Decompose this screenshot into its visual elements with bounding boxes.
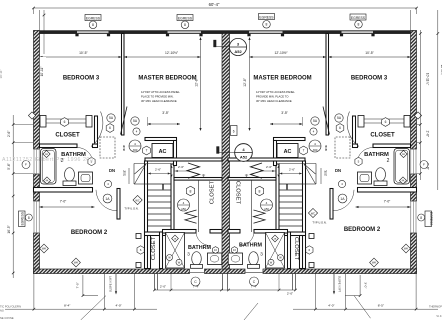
- keynote symbol 7 (right): [300, 146, 308, 155]
- svg-text:6: 6: [385, 120, 387, 124]
- walkway outline verticals right: [316, 274, 417, 310]
- svg-text:2’-0”: 2’-0”: [160, 284, 166, 288]
- stairs: treads: [148, 183, 172, 185]
- svg-text:30” MIN. HEAD CLEARANCE: 30” MIN. HEAD CLEARANCE: [141, 99, 177, 103]
- wall: center party wall (hatched): [222, 34, 230, 270]
- section marker 4/A52 overlay (redraw on top): [235, 144, 253, 162]
- svg-text:8’-5”: 8’-5”: [378, 303, 384, 307]
- wall: party wall stoop extension below bottom wall: [223, 274, 228, 291]
- leader diagonal bottom-center: [244, 303, 258, 320]
- keynote symbol 6 (left): [137, 246, 144, 254]
- keynote symbol 6 (left): [106, 124, 114, 133]
- svg-text:A52: A52: [234, 49, 242, 54]
- left outer vertical dimension chain: [7, 115, 33, 278]
- wall: right exterior (hatched, with two window openings): [411, 31, 417, 274]
- break symbol on closet wall (lower): [185, 210, 197, 223]
- right outer vertical dimension chain A: [417, 30, 430, 180]
- svg-text:BEDROOM 2: BEDROOM 2: [71, 230, 108, 236]
- svg-text:1A: 1A: [105, 197, 110, 201]
- svg-text:WA: WA: [372, 260, 376, 264]
- wall: bathroom2 bottom wall: [34, 188, 93, 193]
- right unit interior geometry (mirrored copy): [122, 34, 422, 269]
- egress box 1 with keynote circle 8: [85, 15, 101, 29]
- keynote symbol WA (right): [370, 258, 379, 267]
- keynote symbol W (left): [167, 255, 173, 261]
- svg-text:8: 8: [184, 23, 186, 27]
- svg-text:3: 3: [260, 252, 263, 257]
- keynote symbol 1A (left): [103, 194, 112, 203]
- keynote symbol 4|A50 (right): [309, 140, 321, 152]
- svg-text:CLOSET: CLOSET: [293, 237, 299, 261]
- keynote symbol 4A (right): [400, 150, 407, 157]
- dim line: overall width 60'-4" top: [32, 7, 418, 30]
- svg-text:10’-5”: 10’-5”: [79, 51, 87, 55]
- svg-text:2’-6”: 2’-6”: [426, 131, 430, 137]
- leader diagonal bottom-right: [354, 296, 371, 319]
- svg-text:A50: A50: [264, 207, 269, 211]
- slope arrow left walkway: [109, 274, 118, 295]
- fixture: toilet bathroom2: [65, 168, 75, 182]
- svg-text:EGRESS: EGRESS: [259, 15, 274, 19]
- dim line: bedroom2 7'-0" interior: [40, 206, 95, 208]
- keynote symbol F (left): [22, 161, 30, 169]
- dim line row: bottom left 8'-4 / 4'-0: [5, 303, 157, 310]
- wall: bedroom2 door stub: [117, 189, 120, 220]
- keynote diamond WC with TYP U.O.N. (right): [308, 208, 326, 224]
- closet door jamb stubs at hall closet: [136, 234, 141, 239]
- walkway outline verticals left: [34, 274, 135, 310]
- svg-text:EGRESS: EGRESS: [178, 16, 193, 20]
- svg-text:12”X30” ATTIC ACCESS PANEL: 12”X30” ATTIC ACCESS PANEL: [256, 90, 295, 94]
- wall: bottom exterior (hatched, two entry door openings): [34, 269, 417, 274]
- egress box 4 with keynote circle 8: [350, 14, 366, 28]
- keynote diamond WC with TYP U.O.N. (left): [124, 195, 142, 210]
- svg-text:WA: WA: [404, 246, 408, 250]
- right outer vertical dimension chain B: [437, 10, 442, 190]
- svg-text:TIC POLYOLEFIN: TIC POLYOLEFIN: [0, 305, 21, 309]
- stairs: up tick: [162, 184, 164, 190]
- fixture: shower stall with X: [166, 233, 185, 269]
- fixture: bathtub bedroom-level bath: [41, 149, 57, 185]
- svg-text:A50: A50: [133, 148, 138, 152]
- stair head dim arrows at x171.5: [170, 166, 172, 168]
- svg-text:30” MIN. HEAD CLEARANCE: 30” MIN. HEAD CLEARANCE: [256, 99, 292, 103]
- svg-text:EGRESS: EGRESS: [86, 16, 101, 20]
- dim: left walkway 7'-0 vertical L: [76, 275, 99, 297]
- svg-text:MASTER BEDROOM: MASTER BEDROOM: [138, 76, 196, 82]
- keynote symbol 10 (right): [232, 247, 238, 254]
- door arc: bathroom3: [196, 232, 210, 246]
- keynote symbol 4|A50 (right): [261, 199, 273, 211]
- svg-text:TYP U.O.N.: TYP U.O.N.: [124, 207, 138, 211]
- keynote symbol 5 (right): [355, 157, 362, 165]
- keynote symbol 6 (left): [61, 118, 69, 127]
- svg-text:12’-8”: 12’-8”: [243, 78, 247, 86]
- svg-text:10’-5”: 10’-5”: [365, 51, 373, 55]
- svg-text:BATHRM: BATHRM: [239, 242, 262, 248]
- svg-text:CLOSET: CLOSET: [151, 236, 157, 260]
- svg-text:5’-6”: 5’-6”: [7, 163, 11, 169]
- svg-text:BEDROOM 3: BEDROOM 3: [63, 76, 100, 82]
- appliance: AC unit box: [152, 144, 173, 158]
- svg-text:4: 4: [266, 201, 268, 205]
- svg-text:THERMOP: THERMOP: [429, 305, 442, 309]
- svg-text:A50: A50: [181, 207, 186, 211]
- dim: right walkway 3'-0 vertical L: [345, 275, 368, 297]
- svg-text:CLOSET: CLOSET: [210, 180, 216, 204]
- keynote symbol F (right): [420, 161, 428, 169]
- keynote symbol 5 (left): [88, 157, 95, 165]
- door keynote circle C left entry: [191, 277, 200, 286]
- svg-text:BATHRM: BATHRM: [364, 152, 389, 158]
- svg-text:WA: WA: [74, 260, 78, 264]
- svg-text:MASTER BEDROOM: MASTER BEDROOM: [253, 76, 311, 82]
- left unit interior geometry (walls, stairs, fixtures): [28, 34, 328, 269]
- svg-text:6: 6: [64, 120, 66, 124]
- svg-text:4: 4: [134, 142, 136, 146]
- svg-text:SLOPE ¼”/FT: SLOPE ¼”/FT: [338, 276, 342, 293]
- svg-text:A52: A52: [240, 154, 248, 159]
- keynote symbol 4 (left): [133, 128, 140, 135]
- keynote symbol W (right): [278, 255, 284, 261]
- svg-text:2’-0”: 2’-0”: [287, 291, 293, 295]
- svg-text:CLOSET: CLOSET: [370, 133, 395, 139]
- svg-text:DN: DN: [109, 168, 115, 173]
- dim line row: bottom right 4'-0 / 8'-5: [293, 303, 438, 310]
- egress box 3 with keynote circle 8: [259, 14, 275, 29]
- keynote symbol 7 (left): [143, 146, 151, 155]
- svg-text:WA: WA: [42, 246, 46, 250]
- svg-text:3: 3: [187, 252, 190, 257]
- keynote symbol 5A (right): [311, 117, 319, 125]
- fixture: vanity bathroom3: [208, 253, 222, 265]
- svg-text:4’-0”: 4’-0”: [328, 303, 334, 307]
- svg-text:12’-10½”: 12’-10½”: [165, 51, 178, 55]
- svg-text:6: 6: [109, 126, 111, 130]
- svg-text:A11211752 Gilbert Psr 1996 205: A11211752 Gilbert Psr 1996 205: [2, 157, 93, 163]
- left interior vertical dim 10'-11 3/4 on wall: [40, 10, 46, 86]
- svg-text:6: 6: [339, 126, 341, 130]
- stairs: top landing and winders: [134, 163, 171, 165]
- svg-text:12’-8”: 12’-8”: [194, 78, 198, 86]
- keynote symbol 6 (right): [306, 246, 313, 254]
- svg-text:DN: DN: [335, 168, 341, 173]
- svg-text:4: 4: [314, 142, 316, 146]
- svg-text:PROVIDE MIN. PLACE TO: PROVIDE MIN. PLACE TO: [256, 95, 288, 99]
- svg-text:A50: A50: [313, 148, 318, 152]
- svg-text:2’-6”: 2’-6”: [155, 168, 161, 172]
- svg-text:AC: AC: [159, 149, 167, 155]
- egress label rotated on left wall: [19, 211, 33, 227]
- section marker 4/A52: [217, 144, 253, 162]
- svg-text:2’-6”: 2’-6”: [289, 168, 295, 172]
- svg-text:WC: WC: [135, 199, 139, 203]
- wall: master closet front + top: [174, 178, 222, 181]
- svg-text:3’-0”: 3’-0”: [364, 282, 368, 288]
- keynote symbol 5A (right): [335, 114, 343, 122]
- svg-text:7: 7: [303, 149, 305, 153]
- keynote symbol WA (left): [40, 244, 49, 253]
- wall: bedroom3/master divider: [122, 34, 125, 136]
- keynote symbol 4|A50 (left): [129, 140, 141, 152]
- dim line: master 12'-8 vertical: [200, 40, 202, 128]
- svg-text:BEDROOM 2: BEDROOM 2: [344, 227, 381, 233]
- door arc: bedroom2 entry: [96, 190, 117, 211]
- wall: AC closet: [145, 138, 177, 141]
- svg-text:12’-10½”: 12’-10½”: [274, 51, 287, 55]
- svg-text:F: F: [423, 163, 425, 167]
- svg-text:16’-5”: 16’-5”: [7, 225, 11, 233]
- svg-text:60’-4”: 60’-4”: [209, 2, 220, 7]
- svg-text:6: 6: [233, 130, 235, 134]
- keynote symbol 4 (left): [104, 180, 111, 187]
- svg-text:2: 2: [387, 158, 390, 164]
- window keynote diamond left wall: [28, 112, 35, 119]
- door arc: bedroom3 door at hall: [91, 112, 103, 147]
- closet door jambs bedroom3: [40, 116, 46, 128]
- door keynote circle C right entry: [250, 277, 259, 286]
- keynote symbol W (left): [176, 259, 182, 265]
- svg-text:TYP U.O.N.: TYP U.O.N.: [312, 220, 326, 224]
- svg-text:1A: 1A: [340, 197, 345, 201]
- wall stub below AC closet: [174, 161, 177, 166]
- svg-text:8: 8: [358, 23, 360, 27]
- svg-text:10’-11”: 10’-11”: [0, 69, 3, 78]
- egress label rotated on right wall: [418, 211, 433, 227]
- keynote symbol W (right): [268, 259, 274, 265]
- svg-text:2’-6”: 2’-6”: [7, 131, 11, 137]
- leader diagonal bottom-left: [81, 296, 106, 320]
- keynote symbol 4 (right): [310, 128, 317, 135]
- svg-text:AC: AC: [284, 149, 292, 155]
- keynote symbol 4A (right): [399, 177, 406, 184]
- wall: bedroom3 closet right jamb wall: [95, 116, 98, 144]
- svg-text:7’-0”: 7’-0”: [60, 200, 67, 204]
- svg-text:CLOSET: CLOSET: [235, 181, 241, 205]
- slope arrow right walkway: [333, 274, 342, 295]
- keynote symbol 5A (left): [131, 117, 139, 125]
- svg-text:8: 8: [190, 189, 192, 193]
- svg-text:BEDROOM 3: BEDROOM 3: [351, 76, 388, 82]
- door arc: bathroom2: [77, 148, 93, 164]
- keynote symbol WA (right): [402, 244, 411, 253]
- svg-text:3’-5”: 3’-5”: [281, 111, 288, 115]
- svg-text:8: 8: [420, 216, 422, 220]
- stoop side walls below bottom wall: [155, 274, 296, 291]
- section marker 3/A52: [214, 38, 247, 55]
- svg-text:CLOSET: CLOSET: [55, 133, 80, 139]
- svg-text:10’-11¾”: 10’-11¾”: [426, 73, 430, 85]
- keynote symbol 1A (right): [338, 194, 347, 203]
- egress box 2 with keynote circle 8: [177, 15, 193, 29]
- dim line: interior room widths at y57: [40, 56, 122, 58]
- wall: under-stair closet: [145, 232, 166, 236]
- keynote symbol 4B (right): [272, 235, 279, 242]
- svg-text:12”X30” ATTIC ACCESS PANEL: 12”X30” ATTIC ACCESS PANEL: [141, 90, 180, 94]
- svg-text:NG: NG: [0, 309, 4, 313]
- svg-text:EGRESS: EGRESS: [351, 16, 366, 20]
- keynote symbol 6 (right): [336, 124, 344, 133]
- svg-text:7’-0”: 7’-0”: [76, 282, 80, 288]
- svg-text:2’-6”: 2’-6”: [266, 165, 272, 169]
- svg-text:BATHRM: BATHRM: [188, 245, 211, 251]
- svg-text:F: F: [25, 163, 27, 167]
- svg-text:8: 8: [28, 216, 30, 220]
- svg-text:4: 4: [183, 201, 185, 205]
- keynote symbol 4A (left): [43, 177, 50, 184]
- svg-text:10’-11”: 10’-11”: [40, 67, 44, 77]
- wall: stair right wall: [171, 164, 174, 232]
- margin note bottom-right: [429, 305, 442, 319]
- attic access note (left): [141, 90, 180, 103]
- margin note bottom-left: [0, 305, 21, 320]
- svg-text:4’-0”: 4’-0”: [115, 303, 121, 307]
- svg-text:WC: WC: [311, 212, 315, 216]
- dim lines: small 2'-6 pair at stair head: [148, 173, 172, 175]
- svg-text:PLACE TO PROVIDE MIN.: PLACE TO PROVIDE MIN.: [141, 95, 174, 99]
- keynote symbol 4B (left): [172, 235, 179, 242]
- wall: closet+bath top wall with door opening: [40, 144, 78, 148]
- dim line: 3'-5 at master closet front: [148, 123, 181, 125]
- attic access note (right): [256, 90, 295, 103]
- svg-text:8’-4”: 8’-4”: [64, 303, 70, 307]
- wall: bathroom3 top wall with door opening: [163, 230, 197, 234]
- small tag box right of party wall: [231, 126, 238, 136]
- svg-text:V.I.F.: V.I.F.: [436, 314, 442, 318]
- keynote symbol 10 (left): [213, 247, 219, 254]
- keynote symbol 5A (left): [107, 114, 115, 122]
- dashed attic access panel in hall: [100, 137, 115, 158]
- svg-text:8: 8: [266, 23, 268, 27]
- svg-text:SLOPE ¼”/FT: SLOPE ¼”/FT: [109, 275, 113, 292]
- keynote symbol 4 (right): [338, 180, 345, 187]
- keynote symbol WA (left): [72, 258, 81, 267]
- svg-text:8: 8: [259, 189, 261, 193]
- svg-text:7’-0”: 7’-0”: [384, 200, 391, 204]
- keynote symbol 4|A50 (left): [178, 199, 190, 211]
- svg-text:EGRESS: EGRESS: [21, 212, 25, 225]
- svg-text:3’-5”: 3’-5”: [162, 111, 169, 115]
- keynote symbol 4A (left): [43, 150, 50, 157]
- svg-text:7: 7: [146, 149, 148, 153]
- svg-text:NE COVNE: NE COVNE: [0, 316, 14, 320]
- keynote symbol 6 (right): [382, 118, 390, 127]
- break symbol on closet wall (upper): [187, 163, 200, 178]
- svg-text:8: 8: [92, 23, 94, 27]
- keynote symbol 8 (left): [186, 186, 194, 196]
- door leaf: master bedroom door (diagonal): [121, 107, 128, 135]
- fixture: vanity sink bathroom2: [79, 172, 93, 184]
- keynote symbol 8 (right): [255, 186, 263, 196]
- wall: top exterior: [34, 31, 417, 37]
- wall: left exterior (hatched, with two window openings): [34, 31, 40, 274]
- svg-text:2’-6”: 2’-6”: [178, 165, 184, 169]
- fixture: toilet bathroom3: [192, 252, 202, 266]
- svg-text:EGRESS: EGRESS: [429, 212, 433, 225]
- dim line: stoop widths 2'-0/7'-4 row: [153, 274, 297, 296]
- wall: stair left wall: [145, 161, 148, 269]
